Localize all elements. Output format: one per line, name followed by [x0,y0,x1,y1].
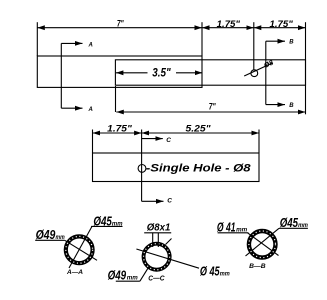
svg-text:A—A: A—A [66,270,83,276]
svg-text:A: A [88,42,93,48]
svg-text:mm: mm [220,271,230,278]
svg-text:A: A [88,107,93,113]
svg-text:C—C: C—C [148,276,165,283]
svg-text:B: B [289,40,294,46]
svg-text:1.75": 1.75" [270,19,294,29]
svg-text:Ø8: Ø8 [263,59,275,69]
svg-text:Ø49: Ø49 [108,269,127,283]
svg-text:B: B [289,103,294,109]
svg-text:-Single Hole - Ø8: -Single Hole - Ø8 [146,163,252,175]
svg-text:C: C [166,137,171,144]
svg-text:mm: mm [112,220,123,227]
svg-text:7": 7" [117,19,124,29]
svg-text:Ø 45: Ø 45 [200,265,220,279]
svg-text:Ø45: Ø45 [93,214,112,228]
svg-text:7": 7" [209,102,216,112]
svg-text:Ø 41: Ø 41 [217,221,236,235]
svg-text:mm: mm [127,275,138,282]
svg-text:5.25": 5.25" [186,124,212,134]
svg-text:Ø49: Ø49 [36,228,56,242]
svg-text:mm: mm [56,234,65,241]
svg-text:Ø45: Ø45 [280,216,299,230]
svg-text:mm: mm [236,227,247,234]
svg-text:Ø8x1: Ø8x1 [147,222,171,234]
svg-text:1.75": 1.75" [217,19,241,29]
svg-text:3.5": 3.5" [152,66,171,80]
svg-text:1.75": 1.75" [107,124,132,134]
svg-text:C: C [167,198,172,205]
svg-text:B—B: B—B [249,264,266,270]
svg-text:mm: mm [298,222,308,229]
